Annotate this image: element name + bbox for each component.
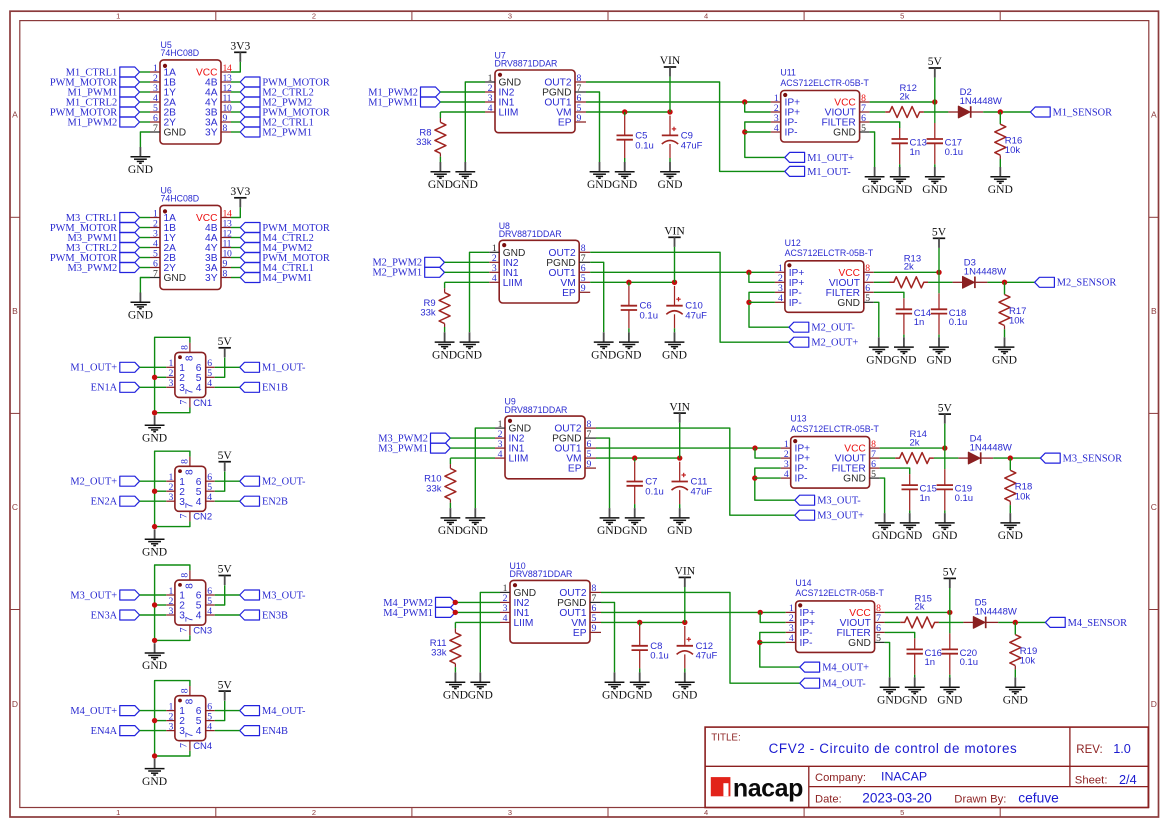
hierarchical label M1_OUT+ xyxy=(70,362,139,373)
svg-text:47uF: 47uF xyxy=(696,651,718,662)
junction xyxy=(152,375,157,380)
svg-text:REV:: REV: xyxy=(1076,744,1102,756)
svg-text:GND: GND xyxy=(672,688,697,701)
svg-text:M2_OUT-: M2_OUT- xyxy=(811,323,855,334)
ground xyxy=(428,162,453,191)
wire M3_PWM1 to IN xyxy=(450,447,495,449)
svg-text:GND: GND xyxy=(616,348,641,361)
wire pin 11 to M4_PWM2 xyxy=(231,247,240,249)
wire 3V3 to pin 14 xyxy=(231,208,240,218)
hierarchical label M3_SENSOR xyxy=(1040,453,1122,464)
wire M1_PWM1 to pin 3 xyxy=(140,91,150,93)
hierarchical label EN3A xyxy=(91,610,140,621)
svg-text:Date:: Date: xyxy=(815,793,842,805)
svg-text:2k: 2k xyxy=(915,602,925,613)
wire FILTER xyxy=(880,468,910,474)
ground xyxy=(887,167,912,196)
svg-text:GND: GND xyxy=(932,529,957,542)
hierarchical label M4_OUT+ xyxy=(70,706,139,717)
svg-text:8: 8 xyxy=(185,469,196,475)
svg-text:1n: 1n xyxy=(925,657,936,668)
svg-text:EN1B: EN1B xyxy=(262,383,288,394)
capacitor C14 1n xyxy=(896,298,931,334)
wire xyxy=(986,621,998,623)
svg-text:M4_PWM1: M4_PWM1 xyxy=(262,273,312,284)
wire xyxy=(928,281,953,283)
hierarchical label PWM_MOTOR xyxy=(240,253,330,264)
svg-text:GND: GND xyxy=(937,693,962,706)
hierarchical label M2_SENSOR xyxy=(1035,277,1117,288)
resistor R12 2k xyxy=(885,83,924,118)
svg-text:1N4448W: 1N4448W xyxy=(970,442,1012,453)
svg-text:8: 8 xyxy=(185,583,196,589)
junction xyxy=(746,300,751,305)
wire LIIM xyxy=(455,621,500,623)
svg-text:GND: GND xyxy=(837,298,860,309)
wire PGND xyxy=(590,262,604,332)
ground xyxy=(128,293,153,322)
wire PWM_MOTOR to pin 2 xyxy=(140,81,150,83)
power 3V3 xyxy=(230,40,250,62)
svg-text:1N4448W: 1N4448W xyxy=(975,607,1017,618)
svg-text:EN3A: EN3A xyxy=(91,610,118,621)
wire xyxy=(439,157,441,162)
svg-text:GND: GND xyxy=(627,688,652,701)
svg-text:GND: GND xyxy=(667,524,692,537)
capacitor C15 1n xyxy=(902,474,937,510)
wire PGND xyxy=(601,602,615,672)
ground xyxy=(992,337,1017,366)
junction xyxy=(742,129,747,134)
svg-text:CN1: CN1 xyxy=(193,398,212,409)
svg-text:EN4B: EN4B xyxy=(262,726,288,737)
svg-text:M3_OUT+: M3_OUT+ xyxy=(70,590,117,601)
hierarchical label M1_CTRL1 xyxy=(66,67,140,78)
svg-text:GND: GND xyxy=(142,432,167,445)
svg-text:4: 4 xyxy=(196,383,202,394)
hierarchical label PWM_MOTOR xyxy=(50,253,140,264)
IC U13 ACS712ELCTR-05B-T xyxy=(781,414,880,488)
capacitor C11 47uF xyxy=(672,462,713,504)
svg-text:5V: 5V xyxy=(928,55,943,68)
svg-text:2: 2 xyxy=(312,12,316,21)
ground xyxy=(597,508,622,537)
svg-text:M2_PWM1: M2_PWM1 xyxy=(372,268,422,279)
wire pin 6 to M4_OUT- xyxy=(215,710,240,712)
svg-text:GND: GND xyxy=(848,638,871,649)
svg-text:M1_PWM1: M1_PWM1 xyxy=(368,97,418,108)
IC U11 ACS712ELCTR-05B-T xyxy=(771,68,870,142)
capacitor C13 1n xyxy=(892,128,927,164)
svg-text:1n: 1n xyxy=(920,493,931,504)
svg-text:3: 3 xyxy=(168,606,173,617)
svg-text:EP: EP xyxy=(558,118,572,129)
svg-text:1n: 1n xyxy=(914,317,925,328)
ground xyxy=(142,529,167,558)
svg-text:3Y: 3Y xyxy=(205,128,218,139)
junction xyxy=(637,620,642,625)
wire pin 7 to GND xyxy=(155,635,190,640)
hierarchical label M3_OUT+ xyxy=(70,590,139,601)
wire 5V to pin 5 xyxy=(215,358,225,378)
junction xyxy=(453,610,458,615)
svg-text:GND: GND xyxy=(457,348,482,361)
wire xyxy=(674,328,676,332)
ground xyxy=(657,162,682,191)
svg-text:GND: GND xyxy=(998,529,1023,542)
ground xyxy=(667,508,692,537)
ground xyxy=(612,162,637,191)
hierarchical label M1_PWM1 xyxy=(368,97,440,108)
svg-text:47uF: 47uF xyxy=(685,311,707,322)
wire pin 2 branch xyxy=(155,604,167,606)
wire OUT1 to IP+ xyxy=(601,611,786,613)
hierarchical label M2_OUT- xyxy=(240,476,306,487)
svg-text:GND: GND xyxy=(128,309,153,322)
wire xyxy=(444,327,446,332)
svg-text:GND: GND xyxy=(902,693,927,706)
wire VCC xyxy=(874,271,939,273)
svg-text:2023-03-20: 2023-03-20 xyxy=(862,790,932,805)
hierarchical label M4_PWM1 xyxy=(240,273,312,284)
svg-text:0.1u: 0.1u xyxy=(645,486,664,497)
svg-text:4: 4 xyxy=(207,378,212,389)
junction xyxy=(152,638,157,643)
svg-text:5V: 5V xyxy=(932,226,947,239)
svg-text:4: 4 xyxy=(778,293,783,304)
wire xyxy=(924,111,949,113)
svg-text:GND: GND xyxy=(657,178,682,191)
ground xyxy=(1003,677,1028,706)
wire FILTER xyxy=(874,292,904,298)
wire OUT2 to motor flag xyxy=(586,82,785,171)
svg-text:1.0: 1.0 xyxy=(1113,742,1131,756)
svg-text:GND: GND xyxy=(602,688,627,701)
svg-text:GND: GND xyxy=(587,178,612,191)
svg-text:2k: 2k xyxy=(904,262,914,273)
svg-text:1n: 1n xyxy=(910,147,921,158)
svg-text:5V: 5V xyxy=(218,563,233,576)
wire OUT2 to motor flag xyxy=(601,592,800,683)
svg-text:VIN: VIN xyxy=(669,400,690,413)
hierarchical label M4_PWM2 xyxy=(240,243,312,254)
wire xyxy=(944,510,946,513)
svg-text:10k: 10k xyxy=(1020,656,1036,667)
wire VM rail xyxy=(596,457,680,459)
svg-text:IP-: IP- xyxy=(795,474,808,485)
wire pin 13 to PWM_MOTOR xyxy=(231,227,240,229)
ground xyxy=(891,337,916,366)
svg-text:0.1u: 0.1u xyxy=(955,493,974,504)
svg-text:33k: 33k xyxy=(416,137,432,148)
svg-text:D: D xyxy=(12,699,18,709)
wire xyxy=(983,111,1030,113)
wire OUT1 to IP+ xyxy=(590,271,775,273)
ground xyxy=(622,508,647,537)
hierarchical label EN4B xyxy=(240,726,288,737)
resistor R15 2k xyxy=(900,593,939,628)
svg-text:B: B xyxy=(12,306,18,316)
wire GND pin1 xyxy=(475,428,495,508)
wire pin 8 to M4_PWM1 xyxy=(231,277,240,279)
svg-text:U14: U14 xyxy=(795,578,811,588)
svg-text:8: 8 xyxy=(179,573,190,578)
wire xyxy=(899,164,901,167)
ground xyxy=(866,337,891,366)
hierarchical label M4_OUT- xyxy=(240,706,306,717)
hierarchical label M1_PWM2 xyxy=(368,87,440,98)
svg-text:GND: GND xyxy=(897,529,922,542)
wire xyxy=(976,281,988,283)
wire IP- chain xyxy=(745,122,785,157)
power 5V xyxy=(218,563,233,585)
svg-text:U13: U13 xyxy=(790,414,806,424)
wire pin 6 to M1_OUT- xyxy=(215,366,240,368)
wire GND pin1 xyxy=(465,82,485,162)
svg-text:U12: U12 xyxy=(785,238,801,248)
ground xyxy=(463,508,488,537)
ground xyxy=(662,332,687,361)
wire xyxy=(684,668,686,672)
wire IP+ branch xyxy=(755,448,781,458)
wire xyxy=(439,112,441,118)
svg-text:1N4448W: 1N4448W xyxy=(960,96,1002,107)
wire IP- pin4 xyxy=(760,641,786,643)
svg-text:M3_OUT-: M3_OUT- xyxy=(262,590,306,601)
junction xyxy=(632,455,637,460)
wire 5V xyxy=(934,78,936,102)
junction xyxy=(746,270,751,275)
svg-text:4: 4 xyxy=(704,12,708,21)
svg-text:2k: 2k xyxy=(910,437,920,448)
hierarchical label M4_OUT+ xyxy=(800,662,869,673)
svg-text:4: 4 xyxy=(784,469,789,480)
svg-text:9: 9 xyxy=(577,113,582,124)
svg-text:M4_OUT-: M4_OUT- xyxy=(822,679,866,690)
connector CN4 xyxy=(166,686,215,752)
wire EN3A to pin 3 xyxy=(140,614,167,616)
ground xyxy=(862,167,887,196)
svg-text:B: B xyxy=(1151,306,1157,316)
svg-text:GND: GND xyxy=(164,273,187,284)
svg-text:EP: EP xyxy=(568,464,582,475)
junction xyxy=(152,410,157,415)
wire xyxy=(914,675,916,678)
wire VIN xyxy=(669,77,671,112)
junction xyxy=(752,445,757,450)
wire pin 8 loop xyxy=(155,565,190,640)
svg-text:47uF: 47uF xyxy=(681,140,703,151)
wire M3_PWM1 to pin 3 xyxy=(140,237,150,239)
wire OUT2 to motor flag xyxy=(596,428,795,515)
svg-text:4: 4 xyxy=(774,123,779,134)
svg-text:GND: GND xyxy=(877,693,902,706)
wire xyxy=(454,667,456,672)
wire 5V xyxy=(944,424,946,448)
svg-text:10k: 10k xyxy=(1009,316,1025,327)
svg-text:4: 4 xyxy=(196,726,202,737)
connector CN2 xyxy=(166,457,215,523)
wire xyxy=(998,621,1045,623)
svg-text:3: 3 xyxy=(168,492,173,503)
svg-text:M1_OUT+: M1_OUT+ xyxy=(70,363,117,374)
svg-text:GND: GND xyxy=(463,524,488,537)
svg-text:CN2: CN2 xyxy=(193,512,212,523)
wire PWM_MOTOR to pin 2 xyxy=(140,227,150,229)
ground xyxy=(142,416,167,445)
svg-text:8: 8 xyxy=(179,459,190,464)
wire pin 4 to EN1B xyxy=(215,386,240,388)
svg-text:CN3: CN3 xyxy=(193,626,212,637)
resistor R17 10k xyxy=(999,282,1026,329)
svg-text:DRV8871DDAR: DRV8871DDAR xyxy=(495,59,558,69)
svg-text:GND: GND xyxy=(428,178,453,191)
ground xyxy=(142,643,167,672)
ground xyxy=(616,332,641,361)
hierarchical label M4_OUT- xyxy=(800,678,866,689)
junction xyxy=(672,280,677,285)
wire VCC xyxy=(880,447,945,449)
wire 5V to pin 5 xyxy=(215,472,225,492)
wire VIN xyxy=(674,247,676,282)
resistor R16 10k xyxy=(995,112,1022,159)
wire xyxy=(669,158,671,162)
svg-text:GND: GND xyxy=(872,529,897,542)
svg-text:GND: GND xyxy=(887,183,912,196)
wire pin 13 to PWM_MOTOR xyxy=(231,81,240,83)
IC U14 ACS712ELCTR-05B-T xyxy=(786,578,885,652)
ground xyxy=(142,759,167,788)
wire xyxy=(971,111,983,113)
capacitor C18 0.1u xyxy=(931,272,968,334)
wire PWM_MOTOR to pin 5 xyxy=(140,257,150,259)
hierarchical label M4_PWM2 xyxy=(383,597,455,608)
junction xyxy=(752,475,757,480)
svg-text:0.1u: 0.1u xyxy=(945,147,964,158)
svg-text:4: 4 xyxy=(196,611,202,622)
svg-text:5: 5 xyxy=(871,469,876,480)
hierarchical label M3_PWM2 xyxy=(378,433,450,444)
hierarchical label PWM_MOTOR xyxy=(50,77,140,88)
svg-text:GND: GND xyxy=(443,688,468,701)
wire VM rail xyxy=(601,621,685,623)
wire 5V xyxy=(938,248,940,272)
svg-text:ACS712ELCTR-05B-T: ACS712ELCTR-05B-T xyxy=(785,248,874,258)
svg-text:33k: 33k xyxy=(431,648,447,659)
wire IP- pin4 xyxy=(745,131,771,133)
svg-text:9: 9 xyxy=(581,283,586,294)
wire IP- pin4 xyxy=(755,477,781,479)
svg-text:5V: 5V xyxy=(218,449,233,462)
hierarchical label EN3B xyxy=(240,610,288,621)
INACAP logo xyxy=(711,774,803,802)
svg-text:M4_OUT+: M4_OUT+ xyxy=(70,706,117,717)
svg-text:4: 4 xyxy=(488,103,493,114)
svg-text:1: 1 xyxy=(116,808,120,817)
svg-text:DRV8871DDAR: DRV8871DDAR xyxy=(505,405,568,415)
svg-text:GND: GND xyxy=(591,348,616,361)
svg-text:Company:: Company: xyxy=(815,772,866,784)
wire VIN xyxy=(679,423,681,458)
wire EN4A to pin 3 xyxy=(140,730,167,732)
wire pin 7 to GND xyxy=(140,132,150,147)
svg-text:2k: 2k xyxy=(900,91,910,102)
hierarchical label M1_OUT- xyxy=(785,166,851,177)
svg-text:8: 8 xyxy=(223,123,228,134)
svg-text:M1_PWM2: M1_PWM2 xyxy=(68,117,118,128)
hierarchical label PWM_MOTOR xyxy=(50,107,140,118)
svg-text:4: 4 xyxy=(207,721,212,732)
capacitor C5 0.1u xyxy=(617,116,654,158)
power 3V3 xyxy=(230,185,250,207)
resistor R11 33k xyxy=(430,628,461,667)
svg-text:5: 5 xyxy=(861,123,866,134)
wire 5V xyxy=(949,588,951,612)
svg-text:5V: 5V xyxy=(938,401,953,414)
svg-text:C: C xyxy=(1151,502,1157,512)
capacitor C7 0.1u xyxy=(627,462,664,504)
wire pin 7 to GND xyxy=(155,751,190,756)
svg-text:Sheet:: Sheet: xyxy=(1075,775,1108,787)
svg-text:8: 8 xyxy=(223,268,228,279)
svg-text:M1_SENSOR: M1_SENSOR xyxy=(1053,107,1113,118)
svg-text:VIN: VIN xyxy=(664,225,685,238)
hierarchical label M2_PWM1 xyxy=(372,267,444,278)
wire GND pin1 xyxy=(470,252,490,332)
svg-text:GND: GND xyxy=(142,775,167,788)
svg-text:0.1u: 0.1u xyxy=(640,311,659,322)
ground xyxy=(443,672,468,701)
svg-text:EP: EP xyxy=(562,288,576,299)
svg-text:IP-: IP- xyxy=(789,298,802,309)
wire PGND xyxy=(596,438,610,508)
wire xyxy=(1004,329,1006,337)
power 5V xyxy=(218,449,233,471)
power 5V xyxy=(928,55,943,77)
svg-text:GND: GND xyxy=(432,348,457,361)
hierarchical label M3_OUT- xyxy=(240,590,306,601)
wire xyxy=(1014,669,1016,677)
svg-text:9: 9 xyxy=(587,459,592,470)
svg-text:3: 3 xyxy=(168,721,173,732)
wire pin 10 to PWM_MOTOR xyxy=(231,111,240,113)
connector CN1 xyxy=(166,343,215,409)
wire pin 2 branch xyxy=(155,720,167,722)
power VIN xyxy=(660,54,681,76)
resistor R19 10k xyxy=(1010,622,1037,669)
hierarchical label M4_PWM1 xyxy=(383,607,455,618)
wire xyxy=(634,504,636,508)
svg-text:GND: GND xyxy=(662,348,687,361)
svg-text:DRV8871DDAR: DRV8871DDAR xyxy=(510,569,573,579)
hierarchical label M3_CTRL1 xyxy=(66,213,140,224)
hierarchical label PWM_MOTOR xyxy=(240,223,330,234)
power VIN xyxy=(664,225,685,247)
hierarchical label M1_SENSOR xyxy=(1030,107,1112,118)
svg-text:CFV2 - Circuito de control de: CFV2 - Circuito de control de motores xyxy=(769,741,1018,756)
resistor R10 33k xyxy=(424,464,456,503)
wire M1_PWM2 to pin 6 xyxy=(140,121,150,123)
wire pin 10 to PWM_MOTOR xyxy=(231,257,240,259)
wire VM rail xyxy=(586,111,670,113)
wire VM rail xyxy=(590,281,674,283)
svg-text:M2_OUT+: M2_OUT+ xyxy=(70,477,117,488)
svg-text:0.1u: 0.1u xyxy=(949,317,968,328)
power 5V xyxy=(938,401,953,423)
svg-text:ACS712ELCTR-05B-T: ACS712ELCTR-05B-T xyxy=(780,78,869,88)
wire EN1A to pin 3 xyxy=(140,386,167,388)
svg-text:1: 1 xyxy=(116,12,120,21)
